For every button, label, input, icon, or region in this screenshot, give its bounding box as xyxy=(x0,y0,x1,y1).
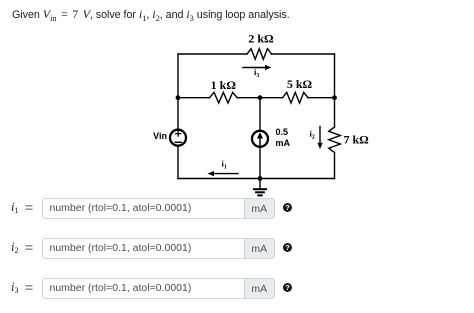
svg-text:1 kΩ: 1 kΩ xyxy=(211,78,237,92)
source I1 arrow xyxy=(257,132,263,146)
wire middle left segment xyxy=(178,97,209,99)
node junction bottom-center xyxy=(258,176,263,181)
current i3 arrow xyxy=(243,65,272,70)
wire right vertical upper xyxy=(334,54,336,127)
svg-text:7 kΩ: 7 kΩ xyxy=(344,133,370,147)
current i2 arrow xyxy=(317,127,322,150)
svg-text:i2: i2 xyxy=(310,129,315,141)
Vin minus sign xyxy=(175,141,181,143)
svg-text:2 kΩ: 2 kΩ xyxy=(248,32,274,46)
resistor 7k body (vertical) xyxy=(329,127,341,153)
wire left vertical lower xyxy=(177,146,179,178)
wire right vertical lower xyxy=(334,153,336,179)
wire middle center segment xyxy=(237,97,282,99)
wire left vertical upper xyxy=(177,54,179,129)
Vin plus sign xyxy=(176,131,181,136)
answer row i1 xyxy=(11,200,45,218)
wire center vertical lower xyxy=(259,148,261,179)
node junction right-middle xyxy=(332,95,337,100)
wire bottom xyxy=(178,178,335,180)
svg-text:5 kΩ: 5 kΩ xyxy=(287,77,313,91)
resistor 2k body xyxy=(247,49,271,60)
answer row i3 xyxy=(11,280,45,298)
answer row i2 xyxy=(11,240,45,258)
ground xyxy=(254,179,266,196)
resistor 1k body xyxy=(209,92,237,103)
wire middle right segment xyxy=(308,97,335,99)
wire top-left segment xyxy=(178,53,247,55)
circuit schematic xyxy=(0,0,474,200)
source Vin (circle) xyxy=(170,130,186,146)
wire center vertical upper xyxy=(259,98,261,130)
current i1 arrow xyxy=(208,171,239,176)
node junction center-middle xyxy=(258,95,263,100)
svg-text:0.5: 0.5 xyxy=(276,127,289,137)
resistor 5k body xyxy=(283,92,309,103)
svg-text:Vin: Vin xyxy=(153,131,167,141)
svg-text:mA: mA xyxy=(276,138,291,148)
svg-text:i3: i3 xyxy=(254,67,259,79)
problem statement xyxy=(12,7,290,22)
node junction left-middle xyxy=(176,95,181,100)
wire top-right segment xyxy=(272,53,335,55)
source I1 0.5mA (circle) xyxy=(252,131,268,147)
svg-text:i1: i1 xyxy=(222,158,227,170)
